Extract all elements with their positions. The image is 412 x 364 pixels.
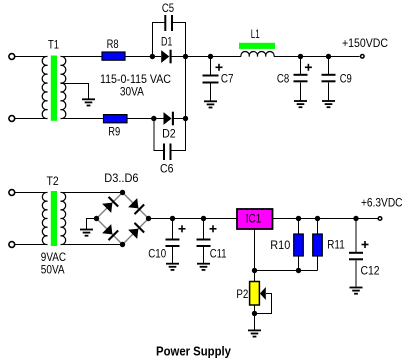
svg-text:C10: C10 bbox=[148, 249, 166, 261]
svg-text:C6: C6 bbox=[160, 164, 174, 176]
svg-text:D1: D1 bbox=[161, 37, 173, 49]
svg-text:P2: P2 bbox=[236, 289, 248, 301]
svg-text:L1: L1 bbox=[251, 29, 260, 41]
svg-text:+150VDC: +150VDC bbox=[342, 38, 388, 50]
svg-text:C8: C8 bbox=[277, 73, 289, 85]
svg-text:C11: C11 bbox=[210, 249, 227, 261]
svg-text:+6.3VDC: +6.3VDC bbox=[361, 198, 403, 210]
svg-text:30VA: 30VA bbox=[120, 87, 144, 99]
svg-text:9VAC: 9VAC bbox=[41, 252, 66, 264]
svg-text:115-0-115 VAC: 115-0-115 VAC bbox=[100, 74, 171, 86]
svg-text:C5: C5 bbox=[162, 3, 174, 15]
svg-text:R8: R8 bbox=[107, 39, 119, 51]
svg-text:R10: R10 bbox=[270, 240, 290, 252]
svg-text:R9: R9 bbox=[108, 127, 120, 139]
svg-text:D2: D2 bbox=[162, 129, 176, 141]
svg-text:T1: T1 bbox=[48, 40, 59, 52]
svg-text:Power Supply: Power Supply bbox=[156, 344, 232, 359]
svg-text:C7: C7 bbox=[221, 74, 234, 86]
svg-text:D3..D6: D3..D6 bbox=[104, 173, 138, 185]
svg-text:R11: R11 bbox=[327, 239, 344, 251]
svg-text:C12: C12 bbox=[361, 265, 380, 277]
svg-text:C9: C9 bbox=[340, 73, 352, 85]
svg-text:T2: T2 bbox=[47, 176, 59, 188]
svg-text:50VA: 50VA bbox=[41, 265, 65, 277]
svg-text:IC1: IC1 bbox=[246, 214, 262, 226]
